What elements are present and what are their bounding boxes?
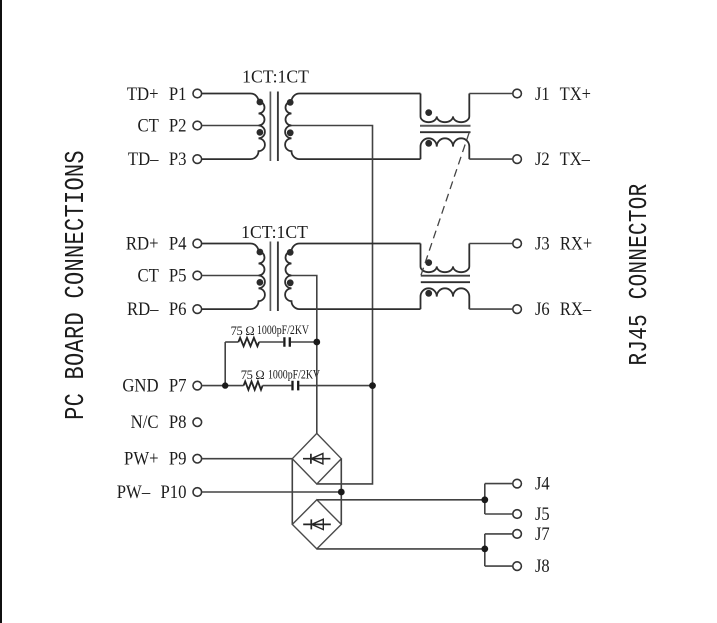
svg-text:CT P2: CT P2 xyxy=(137,115,186,136)
wire stub to J8 xyxy=(485,565,513,567)
pin circle P10 xyxy=(193,488,202,497)
pin circle P9 xyxy=(193,454,202,463)
choke L1 bottom winding xyxy=(421,138,470,159)
junction dot GND tee xyxy=(222,382,228,388)
pin circle P4 xyxy=(193,239,202,248)
wire P5 center tap T2 primary xyxy=(202,275,259,277)
polarity dot T1 primary upper xyxy=(257,99,264,106)
svg-text:J2 TX–: J2 TX– xyxy=(535,148,591,169)
svg-text:TD+ P1: TD+ P1 xyxy=(127,83,187,104)
svg-text:1000pF/2KV: 1000pF/2KV xyxy=(268,369,320,382)
polarity dot T2 primary upper xyxy=(257,249,264,256)
wire L1 to J1 xyxy=(469,93,513,95)
wire top RC branch left segment xyxy=(225,341,238,343)
TVS diode bridge D1 diamond xyxy=(292,433,341,484)
diode symbol inside D2 xyxy=(303,519,331,529)
transformer T2 secondary winding with wires to choke L2 xyxy=(285,244,420,310)
left edge border bar xyxy=(0,0,2,623)
polarity dot L2 top xyxy=(425,259,432,266)
wire stub to J5 xyxy=(485,513,513,515)
wire D1 right vertex to D2 right vertex xyxy=(340,459,342,525)
svg-text:RJ45 CONNECTOR: RJ45 CONNECTOR xyxy=(625,184,655,366)
transformer T1 primary winding with P1/P3 wires xyxy=(202,94,265,160)
pin circle P3 xyxy=(193,155,202,164)
transformer T2 core lines xyxy=(269,242,271,312)
svg-text:TD– P3: TD– P3 xyxy=(128,148,187,169)
pin circle J4 xyxy=(513,479,522,488)
pin circle P5 xyxy=(193,271,202,280)
svg-text:PW+ P9: PW+ P9 xyxy=(124,448,186,469)
pin circle J8 xyxy=(513,562,522,571)
polarity dot T2 primary lower xyxy=(257,279,264,286)
svg-text:J6 RX–: J6 RX– xyxy=(535,298,592,319)
svg-text:75 Ω: 75 Ω xyxy=(241,368,265,382)
polarity dot T1 secondary lower xyxy=(287,129,294,136)
svg-text:N/C P8: N/C P8 xyxy=(131,411,187,432)
svg-text:1CT:1CT: 1CT:1CT xyxy=(241,222,308,242)
capacitor C1 plates xyxy=(284,337,289,347)
TVS diode bridge D2 diamond xyxy=(292,500,341,549)
pin circle J5 xyxy=(513,510,522,519)
svg-text:J5: J5 xyxy=(535,503,550,524)
wire R1 to C1 xyxy=(259,341,283,343)
polarity dot T1 primary lower xyxy=(257,129,264,136)
pin circle P8 xyxy=(193,418,202,427)
wire R2 to C2 xyxy=(263,385,292,387)
svg-text:J4: J4 xyxy=(535,473,550,494)
svg-text:J8: J8 xyxy=(535,555,550,576)
svg-text:J1 TX+: J1 TX+ xyxy=(535,83,591,104)
pin circle P7 xyxy=(193,381,202,390)
polarity dot L1 top xyxy=(425,109,432,116)
junction dot node A bottom RC xyxy=(369,382,376,389)
transformer T1 secondary winding with wires to choke L1 xyxy=(285,94,420,160)
choke L2 top winding xyxy=(421,244,470,273)
svg-text:1CT:1CT: 1CT:1CT xyxy=(242,66,309,86)
svg-text:RD– P6: RD– P6 xyxy=(127,298,187,319)
wire T2 secondary center tap to node B vertical xyxy=(292,276,317,434)
svg-text:GND P7: GND P7 xyxy=(122,375,186,396)
svg-text:CT P5: CT P5 xyxy=(137,265,186,286)
pin circle J7 xyxy=(513,530,522,539)
choke L1 top winding xyxy=(421,94,470,123)
junction dot P10 node xyxy=(338,489,345,496)
wire P10 to right-vertex vertical xyxy=(202,491,342,493)
wire D2 top vertex to J4/J5 bracket xyxy=(317,499,485,501)
wire GND P7 branch xyxy=(202,385,244,387)
wire D2 bottom vertex to J7/J8 bracket xyxy=(317,548,485,550)
J7/J8 bracket vertical xyxy=(484,534,486,566)
dashed coupling line between choke cores xyxy=(421,132,470,276)
diode symbol inside D1 xyxy=(303,454,330,464)
wire P9 to D1 left vertex xyxy=(202,458,293,460)
resistor R2 75 ohm xyxy=(244,381,263,389)
pin circle P6 xyxy=(193,305,202,314)
pin circle J6 xyxy=(513,305,522,314)
svg-text:RD+ P4: RD+ P4 xyxy=(126,233,187,254)
svg-text:J3 RX+: J3 RX+ xyxy=(535,232,592,253)
polarity dot T2 secondary upper xyxy=(287,249,294,256)
polarity dot T2 secondary lower xyxy=(287,279,294,286)
wire P2 center tap T1 primary xyxy=(202,125,259,127)
transformer T2 primary winding with P4/P6 wires xyxy=(202,244,265,310)
resistor R1 75 ohm xyxy=(238,338,259,346)
transformer T1 core lines xyxy=(269,92,271,162)
wire L2 to J6 xyxy=(469,308,513,310)
capacitor C2 plates xyxy=(293,381,299,391)
polarity dot L1 bottom xyxy=(425,140,432,147)
junction dot J4/J5 bracket xyxy=(481,496,488,503)
wire T1 secondary center tap to node A vertical xyxy=(292,126,373,484)
junction dot J7/J8 bracket xyxy=(481,546,488,553)
wire stub to J7 xyxy=(485,533,513,535)
wire L2 to J3 xyxy=(469,243,513,245)
wire stub to J4 xyxy=(485,483,513,485)
wire D1 left vertex to D2 left vertex xyxy=(291,459,293,525)
polarity dot T1 secondary upper xyxy=(287,99,294,106)
pin circle J2 xyxy=(513,155,522,164)
svg-text:PW– P10: PW– P10 xyxy=(117,481,187,502)
svg-text:75 Ω: 75 Ω xyxy=(231,324,255,338)
wire L1 to J2 xyxy=(469,158,513,160)
pin circle P1 xyxy=(193,89,202,98)
svg-text:PC BOARD CONNECTIONS: PC BOARD CONNECTIONS xyxy=(62,150,91,420)
choke L2 core lines xyxy=(421,275,470,277)
pin circle P2 xyxy=(193,121,202,130)
polarity dot L2 bottom xyxy=(425,290,432,297)
wire GND branch left vertical xyxy=(224,342,226,386)
J4/J5 bracket vertical xyxy=(484,484,486,514)
wire C1 to node B xyxy=(291,341,317,343)
svg-text:1000pF/2KV: 1000pF/2KV xyxy=(257,324,309,337)
junction dot node B top RC xyxy=(313,339,320,346)
choke L2 bottom winding xyxy=(421,288,470,309)
wire C2 to node A xyxy=(299,385,372,387)
pin circle J1 xyxy=(513,89,522,98)
pin circle J3 xyxy=(513,239,522,248)
choke L1 core lines xyxy=(420,125,471,127)
svg-text:J7: J7 xyxy=(535,523,550,544)
